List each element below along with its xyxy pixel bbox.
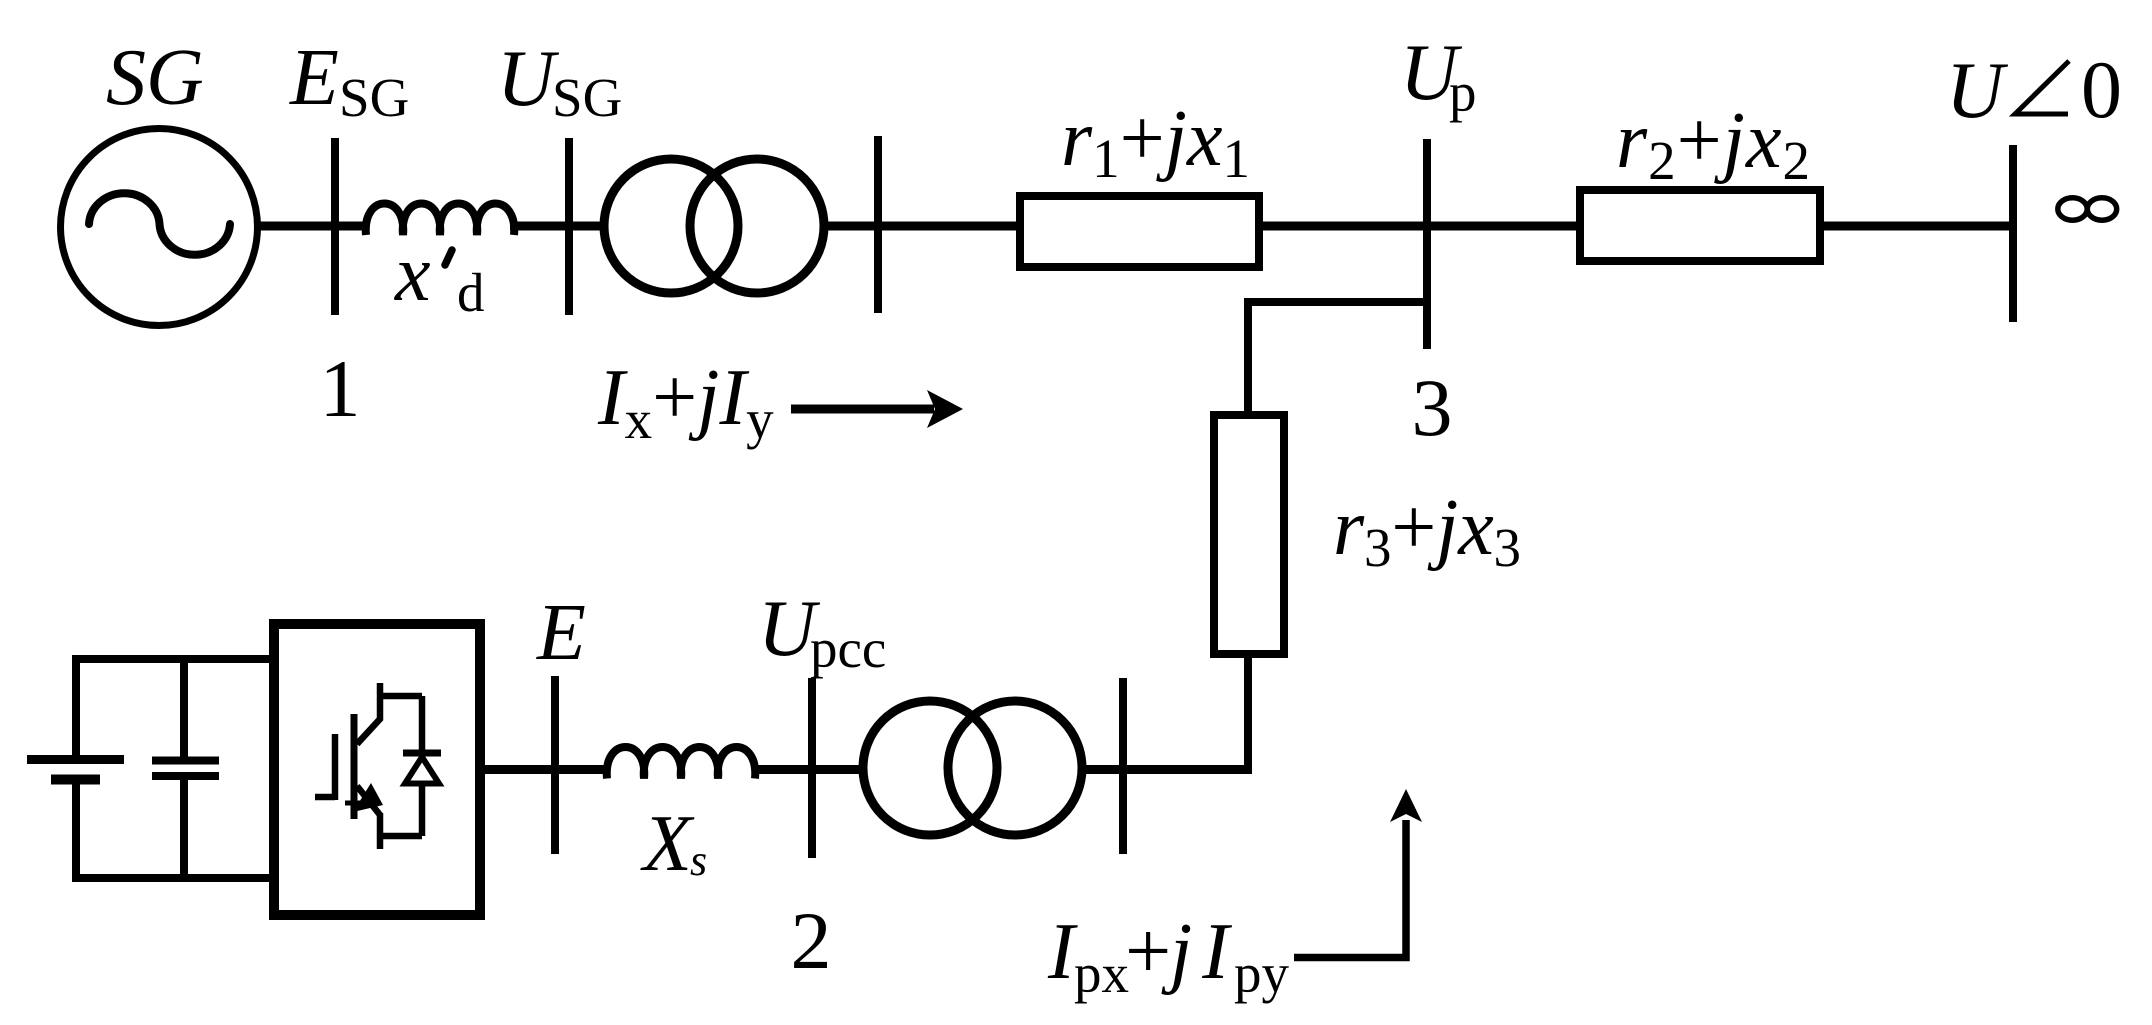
IGBT body bar <box>351 714 358 819</box>
diode branch vertical bottom <box>419 783 426 836</box>
svg-text:x: x <box>394 230 431 318</box>
wire coil Xs to bus Upcc <box>753 765 866 774</box>
resistor r1 box <box>1020 196 1259 267</box>
IGBT collector stub and diagonal <box>357 683 380 744</box>
diode branch vertical top <box>419 696 426 750</box>
inductor x'd coil <box>366 204 515 236</box>
transformer T1 primary circle <box>604 159 738 293</box>
wire resistor r3 down to lower line <box>1119 650 1248 770</box>
svg-text:SG: SG <box>106 34 204 122</box>
transformer T2 secondary circle <box>948 701 1082 835</box>
arrow Ipx+jIpy <box>1294 820 1406 958</box>
svg-text:0: 0 <box>2081 44 2122 135</box>
angle symbol <box>2015 61 2069 114</box>
capacitor C branch <box>180 659 188 757</box>
bus Upcc (node 2) <box>808 678 816 858</box>
converter box <box>274 624 480 915</box>
prime of x'd <box>445 250 452 265</box>
IGBT emitter arrow <box>353 783 383 812</box>
bus E <box>551 676 559 854</box>
wire coil to bus U_SG <box>510 222 606 231</box>
svg-text:E: E <box>289 34 339 122</box>
svg-text:U: U <box>497 35 560 123</box>
IGBT emitter stub <box>377 813 384 849</box>
svg-text:d: d <box>457 262 485 323</box>
svg-text:X: X <box>640 800 695 888</box>
svg-text:pcc: pcc <box>810 618 886 679</box>
wire converter to bus E <box>480 765 610 774</box>
IGBT gate bar <box>332 734 339 800</box>
battery branch <box>76 659 274 755</box>
bus 1 (node E_SG) <box>331 138 339 315</box>
IGBT bottom rail <box>380 833 422 840</box>
arrow Ix+jIy <box>791 405 934 414</box>
generator sine symbol <box>89 193 230 255</box>
wire transformer T2 to corner <box>1080 765 1252 774</box>
svg-text:py: py <box>1234 943 1290 1004</box>
battery short plate <box>51 775 100 785</box>
svg-text:U: U <box>1946 47 2009 135</box>
svg-text:px: px <box>1074 943 1129 1004</box>
infinity symbol <box>2058 198 2087 220</box>
svg-text:E: E <box>536 589 586 677</box>
svg-text:s: s <box>690 836 707 885</box>
capacitor top plate <box>152 757 219 765</box>
branch wire from bus Up down-left (node 3 tee) <box>1248 302 1427 419</box>
svg-text:SG: SG <box>339 67 409 128</box>
IGBT emitter tick <box>345 801 362 806</box>
svg-text:r3+jx3: r3+jx3 <box>1333 484 1521 578</box>
svg-text:3: 3 <box>1412 362 1453 453</box>
transformer T2 primary circle <box>863 701 997 835</box>
resistor r3 box <box>1214 415 1284 654</box>
wire transformer T1 to resistor r1 <box>822 222 1022 231</box>
diode triangle <box>405 757 439 784</box>
capacitor bottom plate <box>152 772 219 780</box>
svg-text:r1+jx1: r1+jx1 <box>1061 95 1250 189</box>
wire generator to bus 1 <box>258 222 366 231</box>
svg-text:+: + <box>1125 905 1171 996</box>
svg-text:SG: SG <box>552 67 622 128</box>
svg-text:2: 2 <box>791 895 832 986</box>
bus after transformer T1 <box>874 136 882 313</box>
infinite bus <box>2009 145 2017 322</box>
svg-text:1: 1 <box>320 343 361 434</box>
inductor Xs coil <box>607 747 756 779</box>
IGBT gate lead <box>315 794 335 801</box>
svg-text:p: p <box>1449 62 1477 123</box>
generator SG circle <box>61 129 258 326</box>
resistor r2 box <box>1580 190 1820 261</box>
battery long plate <box>27 755 124 764</box>
svg-text:r2+jx2: r2+jx2 <box>1616 97 1810 191</box>
IGBT top rail <box>380 693 422 700</box>
wire resistor r2 to infinite bus <box>1818 222 2012 231</box>
transformer T1 secondary circle <box>690 159 824 293</box>
bus after transformer T2 <box>1119 678 1127 854</box>
diode cathode bar <box>403 750 441 757</box>
bus Up (node 3) <box>1423 139 1431 349</box>
wire resistor r1 to bus Up <box>1261 222 1580 231</box>
IGBT emitter diagonal <box>357 786 380 815</box>
bus U_SG <box>565 138 573 315</box>
